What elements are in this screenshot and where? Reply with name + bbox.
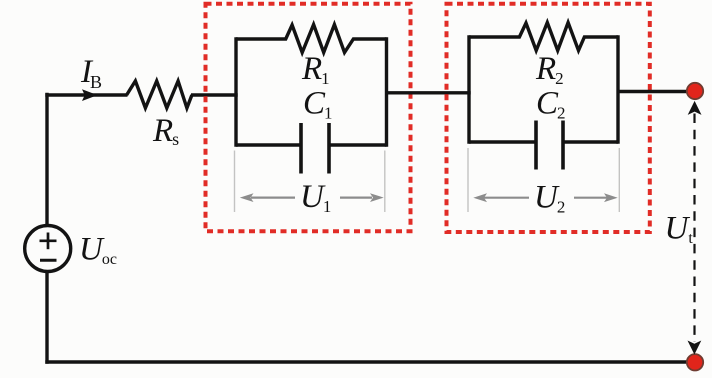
dashed box: RC network 2: [447, 4, 650, 232]
wire: bottom rail: [45, 360, 695, 363]
svg-text:U2: U2: [534, 180, 565, 217]
extension line U1 right: [384, 151, 386, 213]
wire: RC1 right bar: [385, 37, 388, 146]
svg-text:C1: C1: [303, 86, 333, 123]
wire: top rail, left segment: [45, 93, 127, 96]
wire: top rail RC2 to terminal: [618, 90, 689, 93]
svg-text:Uoc: Uoc: [79, 231, 117, 268]
dashed measurement line Ut: [688, 101, 702, 355]
wire: RC2 right bar: [616, 35, 619, 143]
dimension arrow U2: [473, 193, 617, 202]
svg-text:U1: U1: [300, 179, 331, 216]
terminal node bottom (red): [687, 354, 703, 370]
wire: RC2 left bar: [467, 35, 470, 143]
extension line U1 left: [234, 151, 236, 213]
wire: left vertical, top rail down to source: [45, 93, 48, 226]
terminal node top (red): [687, 83, 703, 99]
capacitor C1 (bottom branch): [236, 123, 387, 174]
extension line U2 left: [467, 148, 469, 212]
svg-text:R1: R1: [301, 51, 330, 88]
resistor R_s: [127, 81, 192, 108]
resistor R2 (top branch): [469, 23, 618, 51]
wire: left vertical, source down to bottom rail: [45, 271, 48, 364]
capacitor C2 (bottom branch): [469, 121, 618, 170]
svg-text:R2: R2: [535, 51, 564, 88]
wire: top rail, resistor to RC1: [191, 93, 238, 96]
dimension arrow U1: [240, 193, 384, 202]
wire: top rail between RC1 and RC2: [385, 91, 471, 94]
voltage source U_oc: [25, 226, 71, 272]
wire: RC1 left bar: [234, 37, 237, 146]
svg-text:Ut: Ut: [665, 210, 694, 247]
dashed box: RC network 1: [206, 4, 411, 232]
svg-text:C2: C2: [536, 86, 566, 123]
svg-text:IB: IB: [80, 54, 102, 92]
extension line U2 right: [618, 148, 620, 212]
svg-text:Rs: Rs: [152, 113, 179, 149]
current arrow I_B: [82, 89, 98, 101]
resistor R1 (top branch): [236, 25, 387, 53]
